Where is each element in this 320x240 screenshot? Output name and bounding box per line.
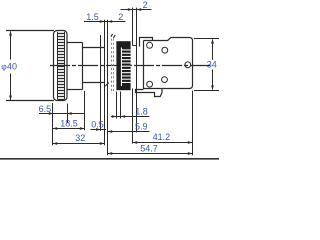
svg-text:5.9: 5.9 (135, 122, 148, 132)
svg-text:18.5: 18.5 (60, 118, 78, 128)
svg-text:34: 34 (207, 60, 217, 70)
svg-text:2: 2 (118, 12, 123, 22)
svg-text:40: 40 (7, 62, 17, 72)
svg-text:32: 32 (75, 133, 85, 143)
svg-text:1.8: 1.8 (135, 107, 148, 117)
svg-text:54.7: 54.7 (140, 144, 158, 154)
svg-text:41.2: 41.2 (153, 132, 171, 142)
svg-text:0.5: 0.5 (91, 120, 104, 130)
svg-text:2: 2 (143, 0, 148, 10)
svg-text:1.5: 1.5 (86, 12, 99, 22)
svg-text:6.5: 6.5 (39, 104, 52, 114)
